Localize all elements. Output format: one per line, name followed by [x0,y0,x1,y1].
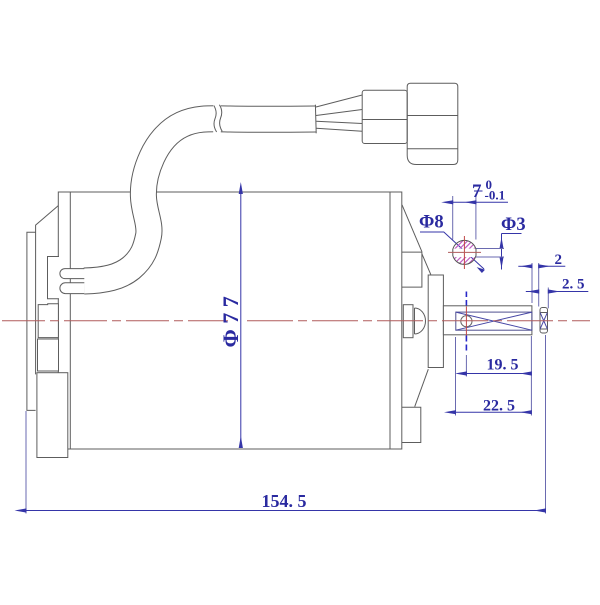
rear upper ear [402,252,422,287]
bearing dome backing rect [403,305,413,338]
dim 154.5 line [26,510,546,512]
shaft worm section [456,312,532,330]
dim phi3 leader horizontal [502,233,522,235]
connector terminal housing [362,90,407,143]
shaft hole vertical centerline [465,307,467,336]
dim 2.5 line left part [526,291,539,293]
motor body main rectangle [58,192,402,449]
dim 2.5 line right part [548,291,588,293]
front lower big block [37,373,68,458]
dim 22.5 extension left [455,337,457,416]
rear lower chamfer [415,369,429,407]
wire 3 outline [316,121,362,123]
dim 2 extensions [531,263,533,303]
bearing dome inner line [414,308,416,334]
dim 154.5 extension right [545,335,547,514]
front outer mounting plate [27,232,36,410]
dim 19.5 extension right [530,336,532,416]
svg-text:-0.1: -0.1 [485,188,506,203]
cable jacket end [314,105,317,134]
main horizontal centerline [2,320,228,322]
wire 1 outline [316,95,362,107]
cable tube [84,119,316,281]
dim 19.5 extension left dashdot [465,292,467,306]
dim 2 line right part [539,265,566,267]
svg-text:Φ77: Φ77 [218,291,243,348]
bearing dome [415,308,426,334]
dim 7 line tail [476,201,508,203]
wire grommet upper [60,269,84,279]
rear upper small chamfer [422,254,431,275]
end piece cross 2 [540,313,547,329]
dim 154.5 extension left [25,411,27,514]
svg-text:Φ8: Φ8 [419,213,444,233]
dim 2.5 extension [547,288,549,309]
svg-text:22. 5: 22. 5 [483,398,515,415]
red centerlines [2,236,590,336]
svg-text:154. 5: 154. 5 [262,491,307,511]
front bearing block lower [38,339,59,371]
dim 7 extension right [475,196,477,240]
connector shell line 1 [407,115,458,117]
dimension texts [218,177,585,511]
dim 2 line left part [518,265,532,267]
end piece bottom cap line [540,328,548,330]
dim 22.5 line [456,411,532,413]
end piece cross 1 [540,313,547,329]
connector main shell [407,83,458,164]
rear lower ear [402,407,421,442]
dim phi77 line [240,194,242,448]
wire 4 outline [316,128,362,131]
wire 2 outline [316,110,362,116]
rear bearing boss [428,275,443,368]
hatched circle phi8 shaft section [434,226,497,289]
dim phi8 leader [420,232,484,269]
dim 19.5 line [466,373,531,375]
svg-text:Φ3: Φ3 [501,215,526,235]
cable break symbol [213,103,221,135]
dim 7 extension left [452,196,454,240]
svg-text:2. 5: 2. 5 [562,277,585,293]
rear flange top chamfer [402,205,422,252]
svg-text:19. 5: 19. 5 [487,357,519,374]
dim phi3 extension lines [476,248,504,250]
dimensions group [26,194,588,514]
front bearing block upper [38,304,58,338]
svg-text:2: 2 [555,252,563,268]
front chamfer plate [36,206,59,375]
motor rear housing line [389,192,391,449]
hatched circle vertical centerline [463,236,465,269]
phi8 circle outline [453,240,476,264]
end piece top cap line [540,312,548,314]
connector shell line 2 [407,148,458,150]
wire bracket [48,257,60,299]
shaft outer rectangle [443,306,532,335]
worm cross diagonal 1 [456,312,532,330]
dim 7 line [453,201,476,203]
worm cross diagonal 2 [456,312,532,330]
end thrust piece [540,308,548,334]
connector terminal divider [362,119,407,121]
wire grommet lower [60,283,84,294]
motor front cap inner line [69,192,71,449]
hatched circle horizontal centerline [448,251,481,253]
shaft cross hole [461,316,472,327]
dim phi3 vertical [501,234,503,270]
